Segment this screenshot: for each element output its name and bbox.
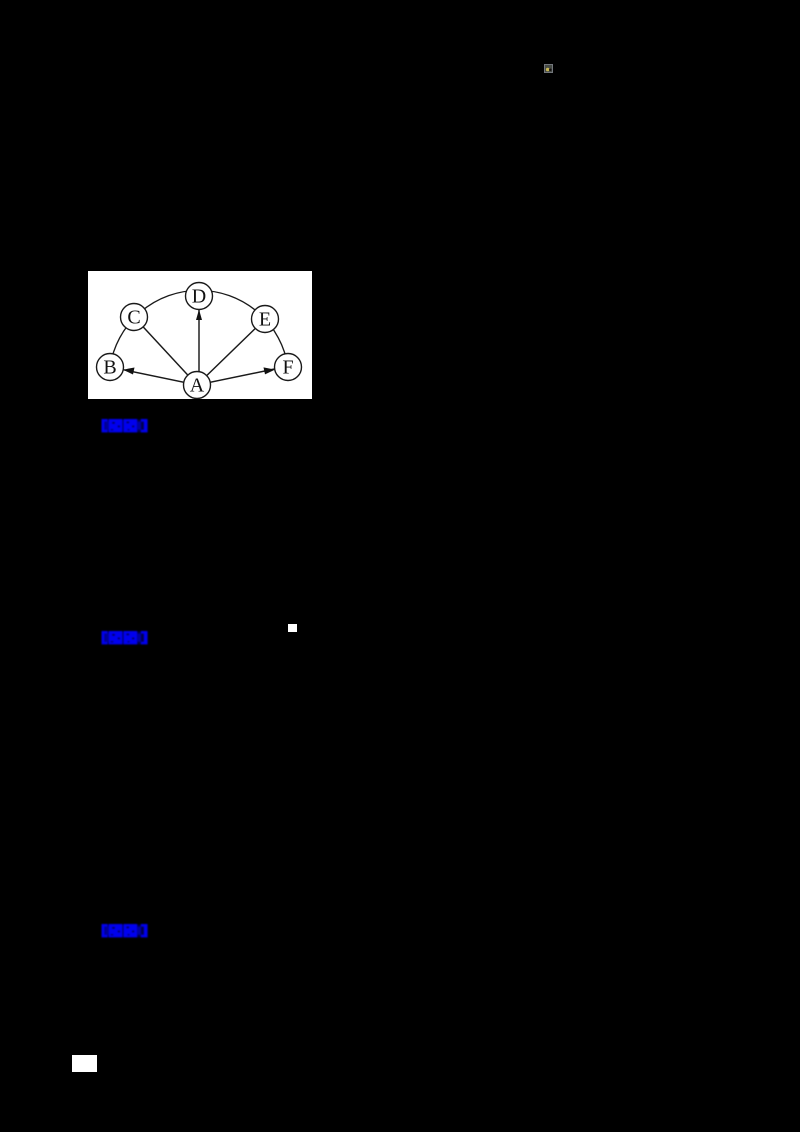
spokes from A	[115, 368, 197, 385]
node labels	[103, 286, 293, 397]
bottom-left white inline image	[72, 1055, 97, 1071]
arrowheads	[123, 368, 135, 375]
outer fan arc through B C D E F (circle centered on A r=90)	[110, 290, 288, 367]
svg-text:C: C	[127, 307, 140, 329]
tiny inline icon (gray square with yellow dot)	[544, 64, 553, 73]
blue answer link 3	[100, 922, 151, 940]
blue answer link 2	[100, 629, 151, 647]
svg-text:E: E	[259, 309, 271, 331]
svg-text:B: B	[103, 357, 116, 379]
svg-text:F: F	[282, 357, 293, 379]
figure: white box with directed graph A..F	[88, 271, 312, 399]
svg-text:A: A	[190, 375, 205, 397]
blue answer link 1	[100, 417, 151, 435]
node circles	[97, 283, 302, 399]
small white inline image	[288, 624, 297, 633]
svg-text:D: D	[192, 286, 206, 308]
